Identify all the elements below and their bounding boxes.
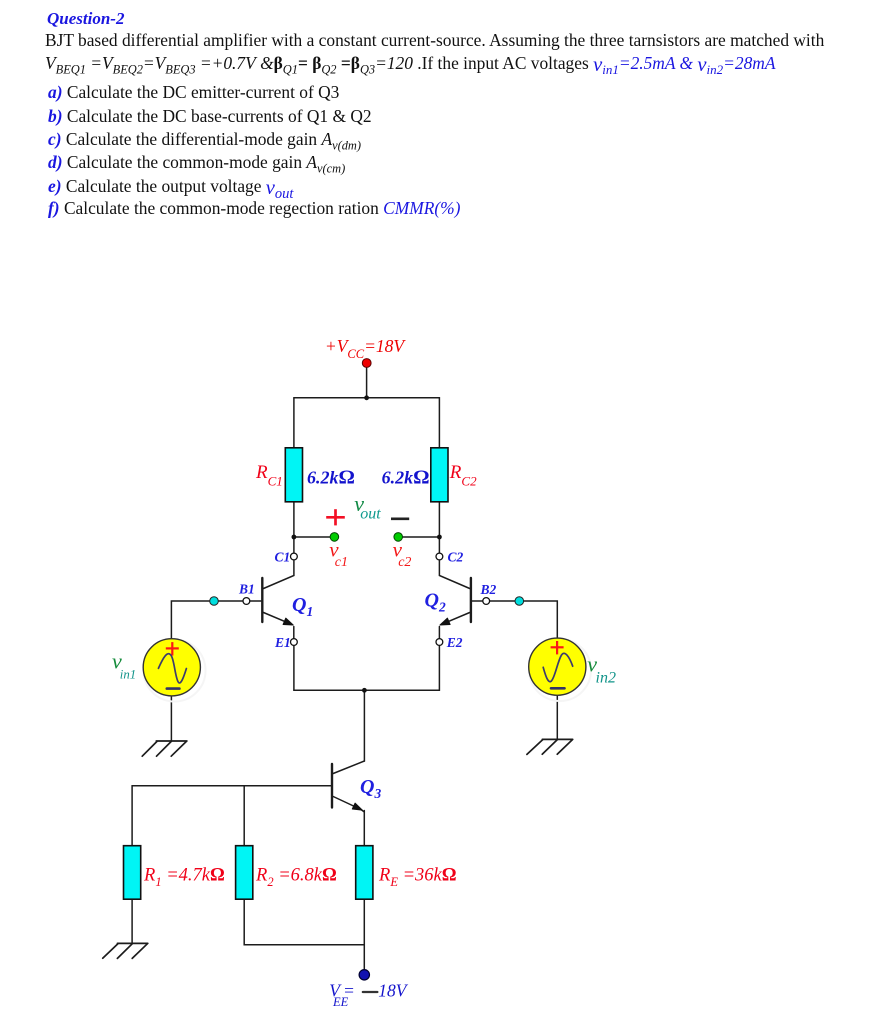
ground under R1: [103, 943, 148, 958]
svg-text:C2: C2: [448, 549, 464, 564]
wire E2 down: [438, 646, 440, 690]
wire top rail: [294, 397, 440, 399]
arrow Q1 emitter: [283, 618, 293, 625]
wire vin2 bottom to ground: [556, 695, 558, 739]
title Question-2: [47, 9, 124, 29]
item b: [48, 106, 372, 127]
wire R1 drop: [131, 786, 133, 846]
svg-text:C1: C1: [275, 549, 291, 564]
svg-text:VEE=: VEE=: [329, 981, 355, 1010]
svg-text:RC2: RC2: [449, 462, 477, 489]
svg-text:vin1: vin1: [112, 649, 136, 682]
item f: [48, 198, 460, 219]
wire vc1 stub: [294, 536, 330, 538]
wire RE bottom to VEE: [363, 899, 365, 970]
svg-text:Q1: Q1: [292, 594, 313, 619]
wire center drop to Q3: [363, 690, 365, 761]
junction at vc2: [437, 535, 442, 540]
svg-text:vin2: vin2: [587, 652, 616, 687]
transistor Q2: [439, 560, 483, 639]
pin E1: [291, 639, 298, 646]
junction at emitter rail: [362, 688, 367, 693]
resistor RC1: [285, 448, 302, 502]
wire right drop to RC2: [438, 398, 440, 448]
svg-text:E2: E2: [446, 635, 463, 650]
paragraph line 1: [45, 30, 824, 51]
transistor Q1: [250, 560, 294, 639]
resistor R1: [124, 846, 141, 900]
svg-text:Q2: Q2: [425, 590, 446, 615]
vin1 sine: [158, 654, 186, 683]
arrow Q3 emitter: [352, 803, 362, 810]
paragraph line 2: [45, 53, 775, 74]
item e: [48, 176, 293, 197]
wire vin1 bottom to ground: [170, 696, 172, 741]
power node VEE: [359, 970, 369, 980]
resistor RC2: [431, 448, 448, 502]
wire R2 drop: [243, 786, 245, 846]
svg-text:B2: B2: [480, 582, 497, 597]
vin1 minus: [167, 687, 180, 690]
node dot cyan B2 wire: [515, 597, 524, 606]
node vc1 (green): [330, 533, 339, 542]
svg-text:6.2kΩ: 6.2kΩ: [307, 467, 355, 489]
wire emitter rail: [294, 689, 440, 691]
pin C2: [436, 553, 443, 560]
source vin2 halo: [529, 639, 591, 701]
vin1 plus: [166, 642, 179, 655]
svg-text:R1 =4.7kΩ: R1 =4.7kΩ: [143, 865, 225, 889]
pin B1: [243, 598, 250, 605]
node dot cyan B1 wire: [210, 597, 219, 606]
wire RC1 bottom to C1: [293, 502, 295, 553]
wire E1 down: [293, 646, 295, 690]
wire B1 to source vin1: [171, 601, 243, 639]
arrow Q2 emitter: [440, 618, 450, 625]
pin C1: [291, 553, 298, 560]
pin E2: [436, 639, 443, 646]
svg-text:6.2kΩ: 6.2kΩ: [382, 467, 430, 489]
resistor R2: [236, 846, 253, 900]
source vin1: [143, 639, 200, 696]
wire B2 to source vin2: [490, 601, 558, 638]
junction at Vcc rail: [364, 395, 369, 400]
ground under vin1: [142, 741, 187, 756]
resistor RE: [356, 846, 373, 900]
svg-text:E1: E1: [274, 635, 291, 650]
source vin2: [529, 638, 586, 695]
vin2 sine: [543, 653, 573, 681]
wire left drop to RC1: [293, 398, 295, 448]
item d: [48, 152, 345, 173]
vin2 minus: [551, 687, 565, 690]
svg-text:RE =36kΩ: RE =36kΩ: [378, 865, 457, 889]
vout plus sign: [326, 509, 345, 525]
wire RC2 bottom to C2: [438, 502, 440, 553]
wire R1 bottom to ground: [131, 899, 133, 943]
svg-text:B1: B1: [238, 581, 255, 596]
wire Q3 base rail: [132, 785, 331, 787]
svg-text:+VCC=18V: +VCC=18V: [325, 336, 406, 361]
vin2 plus: [551, 641, 564, 654]
junction at vc1: [292, 535, 297, 540]
item a: [48, 82, 339, 103]
vout minus sign: [391, 517, 409, 520]
svg-text:R2 =6.8kΩ: R2 =6.8kΩ: [255, 865, 337, 889]
ground under vin2: [527, 739, 573, 754]
minus sign of -18V: [363, 991, 378, 993]
item c: [48, 129, 361, 150]
pin B2: [483, 598, 490, 605]
wire Q3 emitter to RE: [363, 811, 365, 846]
wire Vcc vertical: [366, 368, 368, 398]
svg-text:RC1: RC1: [255, 462, 283, 489]
source vin1 halo: [144, 640, 206, 702]
svg-text:vc2: vc2: [393, 538, 412, 570]
wire vc2 stub: [403, 536, 440, 538]
wire R2 bottom to RE net: [244, 899, 364, 945]
svg-text:vout: vout: [354, 491, 381, 522]
power node +Vcc: [362, 359, 371, 368]
svg-text:Q3: Q3: [360, 776, 381, 801]
transistor Q3: [332, 761, 364, 812]
node vc2 (green): [394, 533, 403, 542]
svg-text:18V: 18V: [378, 981, 409, 1001]
svg-text:vc1: vc1: [329, 538, 348, 570]
